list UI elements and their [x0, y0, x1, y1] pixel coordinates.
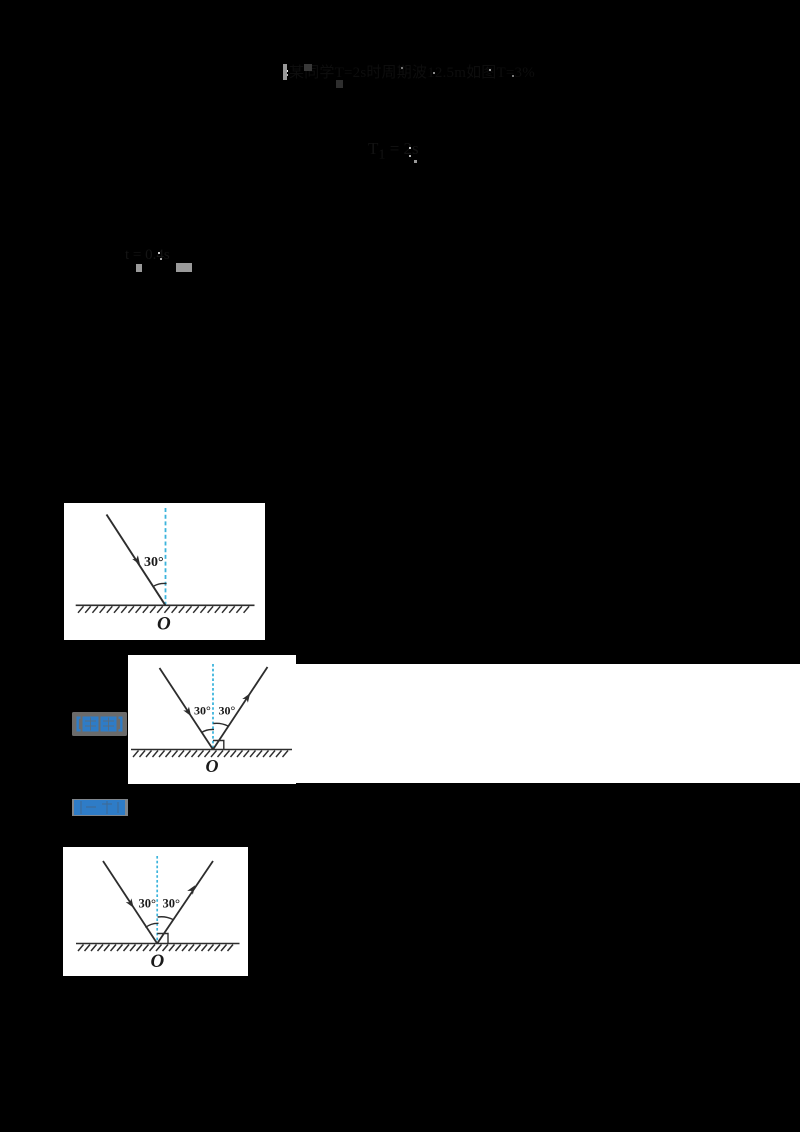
svg-text:30°: 30°: [163, 897, 181, 911]
svg-text:O: O: [206, 756, 219, 776]
svg-text:30°: 30°: [144, 555, 164, 570]
svg-text:30°: 30°: [194, 704, 211, 718]
svg-text:30°: 30°: [219, 704, 236, 718]
svg-text:O: O: [157, 614, 171, 635]
svg-text:O: O: [151, 951, 165, 972]
svg-text:30°: 30°: [139, 897, 157, 911]
